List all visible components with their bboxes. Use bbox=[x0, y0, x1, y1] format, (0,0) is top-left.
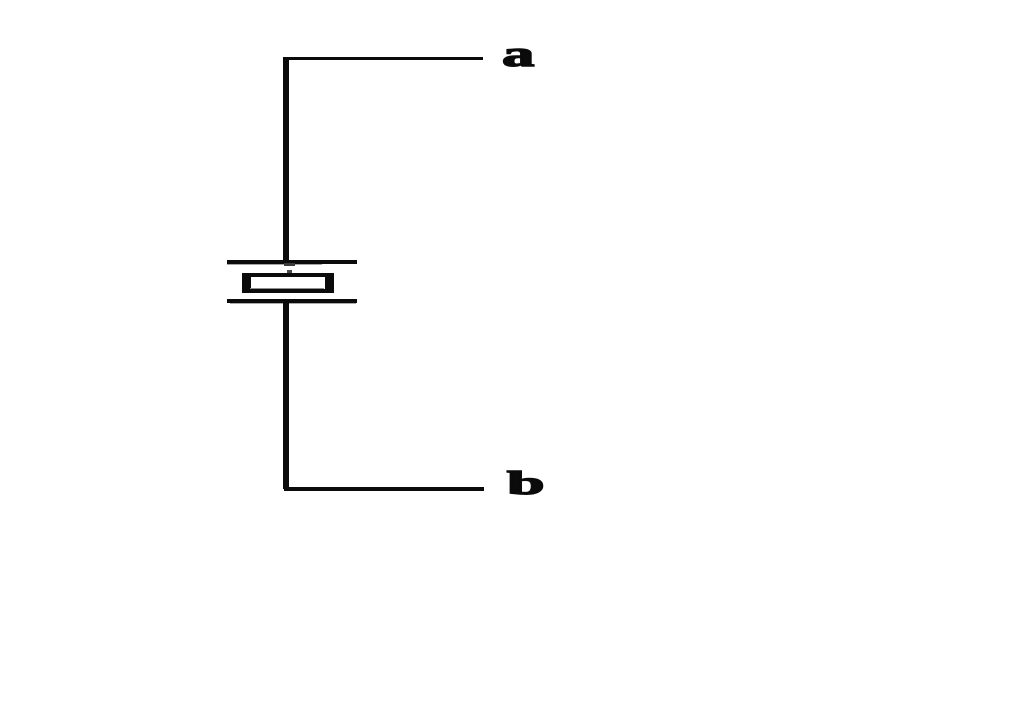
scan artifact: wire stub remnant above crystal body bbox=[287, 270, 292, 272]
crystal Y1 top plate bbox=[227, 260, 357, 264]
wire vertical lower segment bbox=[283, 302, 290, 489]
crystal Y1 body rectangle bbox=[242, 273, 334, 294]
node a label bbox=[502, 33, 534, 75]
wire vertical upper segment bbox=[283, 57, 290, 263]
wire top horizontal (node a lead) bbox=[284, 57, 483, 60]
node b label bbox=[507, 466, 545, 503]
scan artifact: gray line inside crystal body bbox=[250, 288, 324, 289]
scan artifact: wire stub remnant below top plate bbox=[284, 263, 295, 266]
wire bottom horizontal (node b lead) bbox=[284, 487, 484, 490]
crystal Y1 bottom plate bbox=[227, 299, 357, 303]
scan artifact: gray fringe below bottom plate bbox=[230, 303, 356, 305]
scan artifact: gray fringe below top plate bbox=[227, 264, 322, 266]
